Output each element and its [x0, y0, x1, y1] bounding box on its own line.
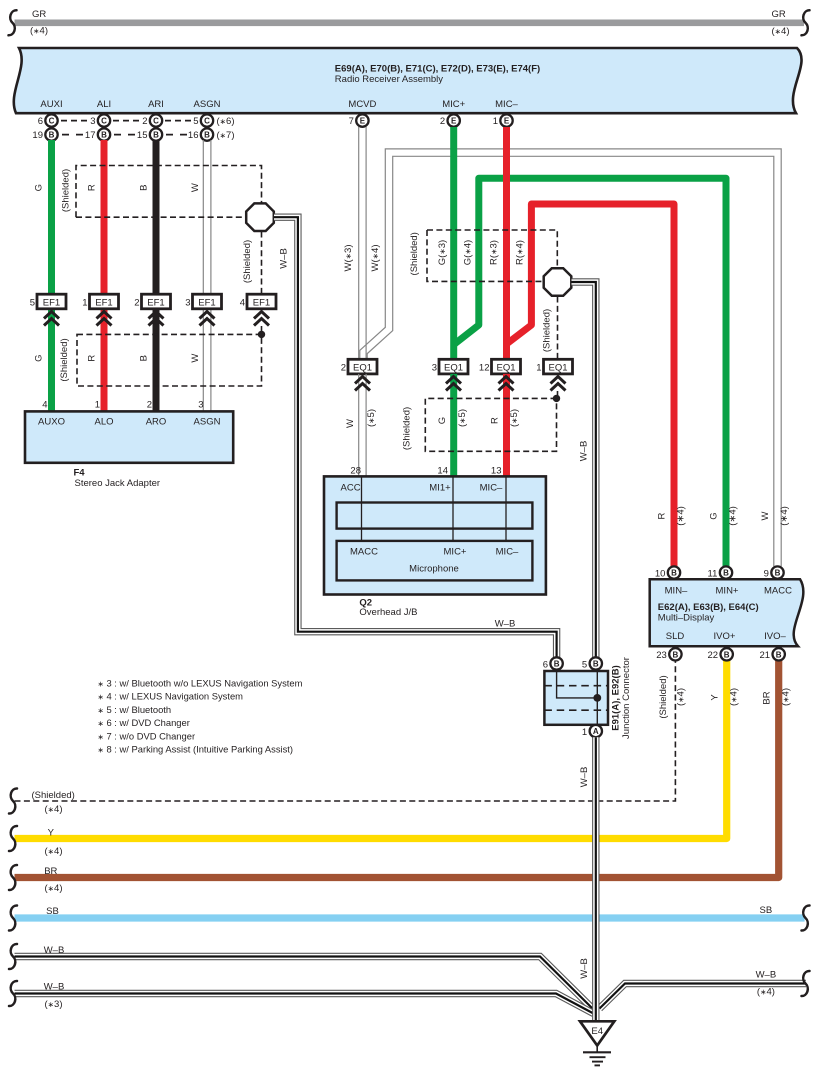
svg-text:B: B — [153, 131, 159, 140]
svg-text:E91(A), E92(B): E91(A), E92(B) — [611, 665, 622, 730]
component E91/E92 Junction Connector — [544, 671, 608, 725]
svg-text:Y: Y — [48, 828, 55, 839]
svg-text:Junction Connector: Junction Connector — [621, 657, 632, 739]
wire Y yellow bus from IVO+ pin 22 — [15, 661, 727, 839]
pin 9 B MACC — [771, 566, 783, 578]
svg-text:BR: BR — [44, 866, 57, 877]
pin 1 A junction — [590, 725, 602, 737]
svg-text:4: 4 — [42, 400, 47, 411]
svg-text:(Shielded): (Shielded) — [658, 675, 669, 718]
svg-text:16: 16 — [188, 130, 199, 141]
svg-text:EQ1: EQ1 — [353, 362, 372, 373]
svg-text:∗ 6 : w/ DVD Changer: ∗ 6 : w/ DVD Changer — [98, 717, 190, 728]
svg-text:(∗4): (∗4) — [30, 26, 48, 37]
svg-text:22: 22 — [708, 650, 719, 661]
svg-text:B: B — [593, 660, 599, 669]
pin 6 C AUXI — [45, 114, 57, 126]
svg-text:(∗4): (∗4) — [729, 688, 740, 706]
wire shielded dashed bus from SLD pin 23 — [15, 661, 676, 801]
inner rect 1 — [337, 503, 533, 529]
svg-text:B: B — [723, 569, 729, 578]
svg-text:(∗4): (∗4) — [45, 804, 63, 815]
svg-text:IVO–: IVO– — [764, 631, 786, 642]
pin 19 B AUXI — [45, 128, 57, 140]
svg-text:MIN+: MIN+ — [716, 586, 739, 597]
svg-text:7: 7 — [349, 116, 354, 127]
svg-text:13: 13 — [491, 466, 502, 477]
svg-text:B: B — [724, 650, 730, 659]
break W-B bus1 — [9, 944, 17, 969]
svg-text:B: B — [139, 355, 150, 361]
svg-text:ACC: ACC — [341, 483, 361, 494]
component F4 Stereo Jack Adapter — [25, 411, 233, 462]
svg-text:G: G — [34, 355, 45, 362]
svg-text:B: B — [101, 131, 107, 140]
wire R red ALI — [101, 140, 108, 412]
connector EQ1 pin 3 — [439, 359, 468, 374]
svg-text:AUXI: AUXI — [40, 99, 62, 110]
svg-text:R: R — [87, 355, 98, 362]
svg-text:C: C — [49, 117, 55, 126]
svg-text:W(∗3): W(∗3) — [343, 245, 354, 272]
svg-text:MACC: MACC — [350, 547, 378, 558]
svg-text:G: G — [437, 417, 448, 424]
svg-text:1: 1 — [82, 297, 87, 308]
connector EQ1 pin 12 — [492, 359, 521, 374]
svg-text:SLD: SLD — [666, 631, 685, 642]
ground E4 — [580, 1021, 614, 1045]
svg-text:(Shielded): (Shielded) — [32, 790, 75, 801]
break GR right — [802, 10, 810, 35]
wire W-B vertical from junction pin 1 to ground — [592, 737, 599, 1021]
svg-text:E: E — [504, 117, 510, 126]
connector EF1 pin 4 — [247, 294, 276, 309]
svg-text:3: 3 — [90, 116, 95, 127]
svg-text:(∗6): (∗6) — [217, 116, 235, 127]
svg-text:EF1: EF1 — [198, 297, 215, 308]
pin 2 C ARI — [150, 114, 162, 126]
svg-text:2: 2 — [440, 116, 445, 127]
connector EF1 pin 3 — [193, 294, 222, 309]
svg-text:SB: SB — [46, 906, 59, 917]
svg-text:IVO+: IVO+ — [714, 631, 736, 642]
break SB right — [802, 905, 810, 930]
svg-text:(∗4): (∗4) — [772, 26, 790, 37]
svg-text:E62(A), E63(B), E64(C): E62(A), E63(B), E64(C) — [658, 602, 759, 613]
svg-text:ASGN: ASGN — [194, 417, 221, 428]
svg-text:B: B — [776, 650, 782, 659]
svg-text:(Shielded): (Shielded) — [59, 338, 70, 381]
svg-text:ARO: ARO — [146, 417, 167, 428]
chevron EQ1-2 — [355, 377, 370, 391]
pin 3 C ALI — [98, 114, 110, 126]
svg-text:MCVD: MCVD — [348, 99, 376, 110]
svg-text:21: 21 — [760, 650, 771, 661]
pin 11 B MIN+ — [720, 566, 732, 578]
svg-text:(Shielded): (Shielded) — [402, 407, 413, 450]
svg-text:(∗4): (∗4) — [45, 846, 63, 857]
svg-text:B: B — [554, 660, 560, 669]
svg-text:(∗4): (∗4) — [781, 688, 792, 706]
svg-text:(∗5): (∗5) — [366, 409, 377, 427]
svg-text:28: 28 — [350, 466, 361, 477]
svg-text:10: 10 — [655, 568, 666, 579]
svg-text:(∗4): (∗4) — [728, 506, 739, 526]
svg-text:E4: E4 — [591, 1026, 603, 1037]
svg-text:MI1+: MI1+ — [429, 483, 451, 494]
break SB left — [9, 905, 17, 930]
svg-text:B: B — [673, 650, 679, 659]
svg-text:W(∗4): W(∗4) — [370, 245, 381, 272]
pin 2 E MIC+ — [448, 114, 460, 126]
svg-text:5: 5 — [30, 297, 35, 308]
svg-text:4: 4 — [240, 297, 245, 308]
shield dashed box mic lower — [425, 398, 556, 451]
svg-text:17: 17 — [85, 130, 96, 141]
svg-text:3: 3 — [432, 362, 437, 373]
svg-text:(Shielded): (Shielded) — [409, 232, 420, 275]
svg-text:G(∗4): G(∗4) — [463, 240, 474, 265]
svg-text:ASGN: ASGN — [194, 99, 221, 110]
svg-text:B: B — [204, 131, 210, 140]
svg-text:5: 5 — [193, 116, 198, 127]
svg-text:∗ 3 : w/ Bluetooth w/o LEXUS N: ∗ 3 : w/ Bluetooth w/o LEXUS Navigation … — [98, 678, 303, 689]
svg-text:1: 1 — [582, 727, 587, 738]
chevron EQ1-12 — [499, 377, 514, 391]
pin 23 B SLD — [669, 648, 681, 660]
svg-text:12: 12 — [479, 362, 490, 373]
svg-text:(Shielded): (Shielded) — [542, 309, 553, 352]
break Y — [9, 826, 17, 851]
wire G (*5) — [450, 374, 457, 477]
svg-text:(Shielded): (Shielded) — [242, 240, 253, 283]
svg-text:EF1: EF1 — [95, 297, 112, 308]
svg-text:(∗4): (∗4) — [779, 506, 790, 526]
break W-B bus2 — [9, 981, 17, 1006]
component Multi-Display E62/E63/E64 — [650, 579, 804, 646]
wire W-B bus right (*4) — [600, 984, 807, 1009]
svg-text:(Shielded): (Shielded) — [61, 169, 72, 212]
chevron EF1-4 — [254, 312, 269, 326]
svg-text:EQ1: EQ1 — [496, 362, 515, 373]
wire R(*3) red from MIC- pin 1 — [503, 127, 510, 360]
break GR left — [9, 10, 17, 35]
svg-text:EQ1: EQ1 — [444, 362, 463, 373]
svg-text:ALI: ALI — [97, 99, 111, 110]
svg-text:5: 5 — [582, 659, 587, 670]
svg-text:GR: GR — [772, 9, 786, 20]
svg-text:GR: GR — [32, 9, 46, 20]
internal lines Overhead J/B — [361, 476, 363, 541]
chevron EF1-3 — [200, 312, 215, 326]
svg-text:EF1: EF1 — [43, 297, 60, 308]
svg-text:∗ 4 : w/ LEXUS Navigation Syst: ∗ 4 : w/ LEXUS Navigation System — [98, 691, 244, 702]
svg-text:23: 23 — [656, 650, 667, 661]
svg-text:(∗5): (∗5) — [457, 409, 468, 427]
wire BR brown bus from IVO- pin 21 — [15, 661, 779, 878]
svg-text:R: R — [490, 417, 501, 424]
connector EF1 pin 2 — [142, 294, 171, 309]
svg-text:11: 11 — [708, 568, 718, 579]
svg-text:1: 1 — [536, 362, 541, 373]
svg-text:EF1: EF1 — [147, 297, 164, 308]
pin 16 B ASGN — [201, 128, 213, 140]
wire W(*3) from MCVD pin 7 (outlined white) — [358, 127, 360, 360]
svg-text:EQ1: EQ1 — [548, 362, 567, 373]
wire SB skyblue bus — [15, 914, 805, 921]
pin 10 B MIN- — [668, 566, 680, 578]
svg-text:C: C — [101, 117, 107, 126]
svg-text:2: 2 — [142, 116, 147, 127]
pin 6 B junction — [550, 657, 562, 669]
pin 22 B IVO+ — [721, 648, 733, 660]
svg-text:Stereo Jack Adapter: Stereo Jack Adapter — [75, 478, 161, 489]
dashes between B pins row — [62, 134, 83, 136]
svg-text:Overhead J/B: Overhead J/B — [359, 607, 417, 618]
svg-text:R: R — [87, 184, 98, 191]
svg-text:EF1: EF1 — [253, 297, 270, 308]
svg-text:W–B: W–B — [495, 619, 516, 630]
wire B black ARI — [153, 140, 160, 412]
wire G(*4) green from MIN+ pin 11 — [455, 178, 727, 566]
pin 5 B junction — [590, 657, 602, 669]
wire W-B bus 2 (*3) — [15, 994, 594, 1014]
svg-text:19: 19 — [32, 130, 43, 141]
shield dashed box mic upper — [427, 230, 557, 281]
component Radio Receiver Assembly E69-E74 — [14, 48, 802, 113]
svg-text:Y: Y — [710, 694, 721, 701]
pin 21 B IVO- — [773, 648, 785, 660]
shield dashed octagon2 to EQ1-1 — [557, 297, 559, 360]
svg-text:B: B — [671, 569, 677, 578]
pin 7 E MCVD — [356, 114, 368, 126]
connector EQ1 pin 2 — [348, 359, 377, 374]
svg-text:R(∗4): R(∗4) — [515, 240, 526, 265]
break W-B right — [802, 971, 810, 996]
svg-text:9: 9 — [764, 568, 769, 579]
shield dashed box upper left — [76, 166, 262, 218]
svg-text:(∗3): (∗3) — [45, 999, 63, 1010]
svg-text:W: W — [345, 419, 356, 428]
svg-text:W–B: W–B — [279, 248, 290, 269]
wire W-B from octagon1 to junction pin 6 — [274, 217, 557, 657]
chevron EF1-1 — [97, 312, 112, 326]
svg-text:(∗5): (∗5) — [509, 409, 520, 427]
shield octagon 2 — [544, 268, 572, 296]
wire W(*4) from MACC pin 9 (outlined white L-wire) — [364, 153, 778, 567]
svg-text:SB: SB — [760, 905, 773, 916]
wire W-B bus 1 — [15, 957, 594, 1010]
svg-text:B: B — [49, 131, 55, 140]
wire W-B from octagon2 to junction pin 5 — [572, 282, 596, 657]
svg-text:Microphone: Microphone — [409, 564, 459, 575]
chevron EF1-2 — [149, 312, 164, 326]
shield dashed EF1-4 to junction dot — [261, 326, 263, 334]
pin 1 E MIC- — [500, 114, 512, 126]
svg-text:ARI: ARI — [148, 99, 164, 110]
svg-text:A: A — [593, 727, 599, 736]
svg-text:2: 2 — [147, 400, 152, 411]
chevron EQ1-1 — [551, 377, 566, 391]
svg-text:W: W — [190, 183, 201, 192]
svg-text:MIC–: MIC– — [480, 483, 503, 494]
shield dashed line octagon1 to EF1-4 — [261, 232, 263, 295]
wire R(*4) red from MIN- pin 10 — [507, 204, 675, 566]
wire G green AUXI — [48, 140, 55, 412]
svg-text:G: G — [34, 184, 45, 191]
svg-text:G: G — [709, 512, 720, 519]
connector EF1 pin 5 — [37, 294, 66, 309]
pin 17 B ALI — [98, 128, 110, 140]
wire W white ASGN (outlined) — [202, 140, 204, 412]
svg-text:B: B — [139, 185, 150, 191]
svg-text:W: W — [190, 354, 201, 363]
wire G(*3) green from MIC+ pin 2 — [450, 127, 457, 360]
svg-text:R: R — [657, 512, 668, 519]
svg-text:15: 15 — [137, 130, 148, 141]
svg-text:6: 6 — [38, 116, 43, 127]
svg-text:(∗7): (∗7) — [217, 130, 235, 141]
svg-text:MIN–: MIN– — [665, 586, 688, 597]
svg-text:W–B: W–B — [44, 945, 65, 956]
svg-text:2: 2 — [134, 297, 139, 308]
svg-text:MIC–: MIC– — [495, 99, 518, 110]
break shielded bus — [9, 788, 17, 813]
svg-text:(∗4): (∗4) — [676, 688, 687, 706]
svg-text:E: E — [451, 117, 457, 126]
svg-text:G(∗3): G(∗3) — [437, 240, 448, 265]
svg-text:C: C — [153, 117, 159, 126]
pin 15 B ARI — [150, 128, 162, 140]
wire GR bus — [15, 20, 805, 27]
svg-text:MIC+: MIC+ — [444, 547, 467, 558]
chevron EQ1-3 — [446, 377, 461, 391]
svg-text:1: 1 — [95, 400, 100, 411]
dashes between C pins row — [61, 120, 87, 122]
svg-text:∗ 5 : w/ Bluetooth: ∗ 5 : w/ Bluetooth — [98, 704, 172, 715]
svg-text:E: E — [360, 117, 366, 126]
svg-text:∗ 7 : w/o DVD Changer: ∗ 7 : w/o DVD Changer — [98, 730, 196, 741]
svg-text:2: 2 — [341, 362, 346, 373]
svg-text:MACC: MACC — [764, 586, 792, 597]
svg-text:Multi–Display: Multi–Display — [658, 613, 715, 624]
svg-text:W–B: W–B — [44, 982, 65, 993]
svg-text:1: 1 — [493, 116, 498, 127]
svg-text:14: 14 — [437, 466, 448, 477]
svg-text:MIC+: MIC+ — [442, 99, 465, 110]
svg-text:W–B: W–B — [579, 767, 590, 788]
svg-text:∗ 8 : w/ Parking Assist (Intui: ∗ 8 : w/ Parking Assist (Intuitive Parki… — [98, 744, 294, 755]
shield octagon 1 — [246, 203, 274, 231]
connector EF1 pin 1 — [90, 294, 119, 309]
wire W (*5) outlined — [358, 374, 360, 477]
junction dot mic lower box — [553, 395, 560, 402]
svg-text:W–B: W–B — [579, 441, 590, 462]
svg-text:(∗4): (∗4) — [45, 883, 63, 894]
svg-text:MIC–: MIC– — [496, 547, 519, 558]
svg-text:(∗4): (∗4) — [757, 987, 775, 998]
svg-text:AUXO: AUXO — [38, 417, 65, 428]
junction dot inside connector — [593, 694, 601, 702]
junction dot lower left shield box — [258, 331, 265, 338]
chevron EF1-5 — [44, 312, 59, 326]
svg-text:R(∗3): R(∗3) — [489, 240, 500, 265]
svg-text:W–B: W–B — [756, 970, 777, 981]
svg-text:W–B: W–B — [579, 958, 590, 979]
shield dashed EQ1-1 to dot — [557, 391, 559, 398]
svg-text:Radio Receiver Assembly: Radio Receiver Assembly — [335, 74, 443, 85]
shield dashed box lower left — [77, 334, 262, 386]
svg-text:6: 6 — [543, 659, 548, 670]
svg-text:F4: F4 — [74, 468, 86, 479]
break BR — [9, 865, 17, 890]
svg-text:BR: BR — [762, 691, 773, 704]
inner rect 2 Microphone — [337, 541, 533, 581]
svg-text:3: 3 — [185, 297, 190, 308]
svg-text:(∗4): (∗4) — [676, 506, 687, 526]
svg-text:ALO: ALO — [94, 417, 113, 428]
svg-text:3: 3 — [198, 400, 203, 411]
pin 5 C ASGN — [201, 114, 213, 126]
svg-text:W: W — [760, 511, 771, 520]
svg-text:B: B — [775, 569, 781, 578]
component Q2 Overhead J/B — [324, 476, 546, 594]
connector EQ1 pin 1 — [544, 359, 573, 374]
wire R (*5) — [503, 374, 510, 477]
svg-text:C: C — [204, 117, 210, 126]
